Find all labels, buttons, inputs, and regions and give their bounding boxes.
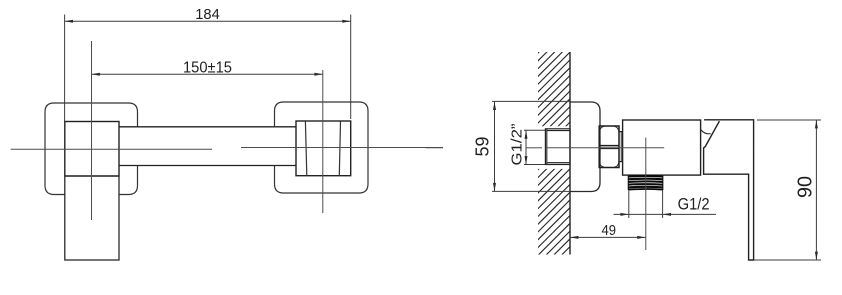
dimension 49 arrow left	[570, 236, 578, 239]
hex nut chamfer arc bottom-right	[614, 162, 618, 167]
dimension 150±15 arrow right	[314, 73, 322, 76]
dimension 59 line	[494, 102, 496, 192]
connecting bar bottom edge	[119, 165, 296, 167]
inlet G1/2 dim extension top	[524, 129, 545, 131]
dimension 59 extension line top	[492, 100, 570, 102]
dimension 184 arrow left	[65, 20, 73, 23]
dimension 184 arrow right	[342, 20, 350, 23]
dimension 90 extension line bottom	[754, 259, 821, 261]
neck vertical line	[620, 132, 622, 162]
inlet G1/2 dim extension bottom	[524, 164, 545, 166]
hex nut chamfer arc top-right	[614, 126, 618, 131]
svg-text:90: 90	[795, 176, 817, 198]
hex nut side view	[599, 126, 619, 168]
dimension 90 arrow bottom	[815, 252, 818, 260]
dimension 59 arrow bottom	[493, 183, 496, 191]
left unit vertical centerline	[91, 41, 93, 220]
dimension 49 line	[570, 236, 646, 238]
outlet thread coil 1	[628, 175, 663, 178]
right escutcheon plate	[275, 102, 369, 193]
dimension 184 line	[65, 20, 351, 22]
svg-text:150±15: 150±15	[183, 60, 232, 77]
side view horizontal centerline segment 2	[526, 147, 542, 149]
side view horizontal centerline segment 1	[426, 147, 443, 149]
hex nut chamfer arc bottom-left	[600, 162, 604, 167]
svg-text:G1/2: G1/2	[678, 196, 710, 214]
hex nut chamfer arc top-left	[600, 126, 604, 131]
inlet nipple inner top line	[547, 130, 570, 132]
dimension 184 extension line left	[64, 15, 66, 122]
handle side view outline	[704, 120, 754, 260]
left unit horizontal centerline	[11, 148, 212, 150]
hex nut facet line upper	[599, 145, 619, 147]
inlet nipple inner bottom line	[547, 162, 570, 164]
inlet nipple inner left line	[546, 129, 548, 165]
wall face line	[569, 52, 571, 255]
handle pivot arc	[701, 130, 711, 134]
outlet thread coil 3	[628, 180, 663, 183]
right unit vertical centerline	[322, 70, 324, 213]
outlet thread coil 2	[628, 178, 663, 181]
dimension 150±15 line	[92, 73, 323, 75]
right body inner taper line left	[305, 122, 306, 176]
outlet G1/2 dimension line	[614, 213, 717, 215]
side view horizontal centerline segment 3	[546, 147, 664, 149]
right unit horizontal centerline	[241, 147, 443, 149]
dimension 184 extension line right	[350, 15, 352, 120]
inlet G1/2 arrow bottom	[525, 156, 528, 164]
dimension 150±15 arrow left	[92, 73, 100, 76]
svg-text:184: 184	[195, 6, 220, 23]
outlet G1/2 arrow right	[663, 213, 671, 216]
outlet thread coil 4	[628, 183, 663, 186]
svg-text:59: 59	[473, 137, 493, 157]
left valve body square	[65, 122, 119, 177]
escutcheon side view	[570, 102, 600, 192]
right valve body square	[296, 121, 351, 176]
svg-text:G1/2”: G1/2”	[510, 123, 526, 165]
dimension 90 extension line top	[757, 119, 821, 121]
inlet G1/2 dim line	[525, 130, 527, 164]
outlet G1/2 extension line right	[662, 190, 664, 218]
outlet thread coil 5	[628, 186, 663, 189]
neck between nut and body bottom	[619, 161, 623, 163]
outlet thread left edge	[627, 175, 629, 190]
dimension 59 extension line bottom	[492, 190, 570, 192]
dimension 49 arrow right	[637, 236, 645, 239]
valve body side view	[623, 120, 701, 175]
outlet vertical centerline	[645, 138, 647, 250]
inlet nipple outer rect	[545, 129, 570, 165]
neck between nut and body top	[619, 131, 623, 133]
dimension 59 arrow top	[493, 102, 496, 110]
left escutcheon plate	[45, 103, 138, 195]
outlet thread right edge	[662, 175, 664, 190]
outlet thread coil 6	[628, 188, 663, 191]
svg-text:49: 49	[601, 222, 616, 239]
dimension 90 line	[815, 120, 817, 260]
hex nut facet line lower	[599, 147, 619, 149]
right body inner taper line right	[339, 122, 340, 176]
outlet G1/2 arrow left	[620, 213, 628, 216]
connecting bar top edge	[119, 126, 296, 128]
inlet G1/2 arrow top	[525, 130, 528, 138]
outlet G1/2 extension line left	[628, 190, 630, 218]
dimension 90 arrow top	[815, 120, 818, 128]
handle front view	[65, 176, 119, 260]
